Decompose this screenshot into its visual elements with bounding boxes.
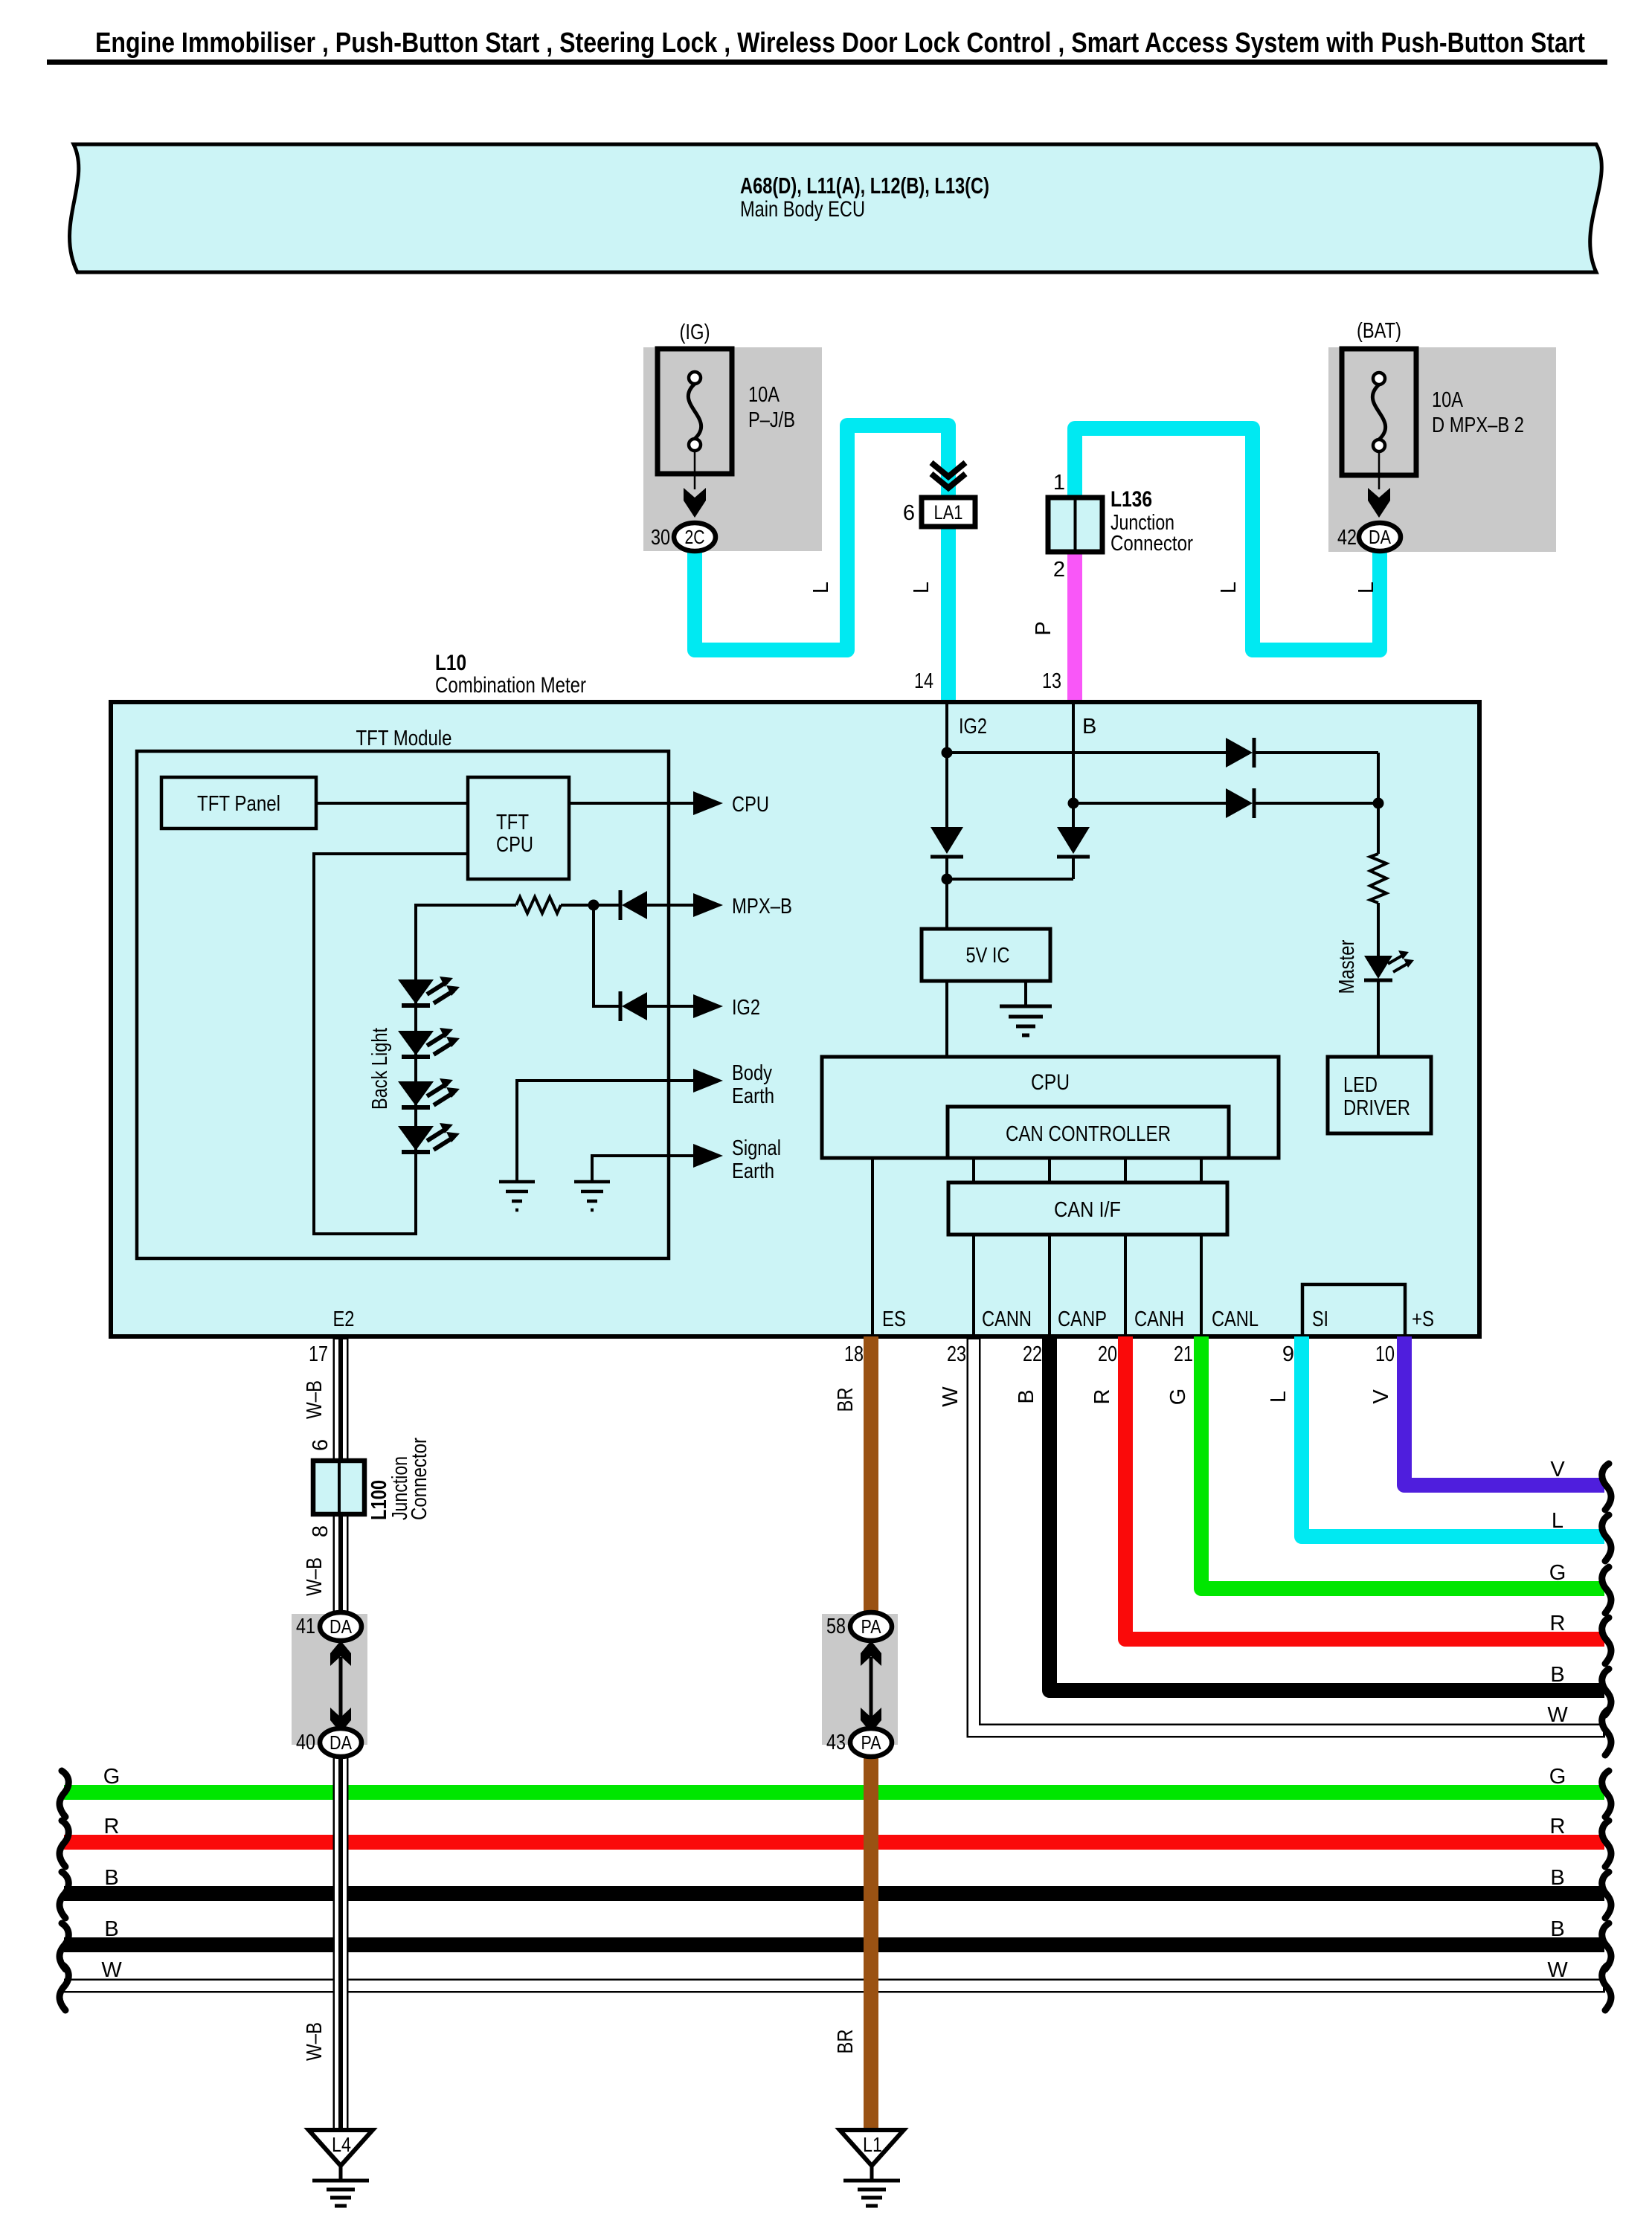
wire IG2 node to diode D3 xyxy=(947,751,1227,754)
svg-text:CPU: CPU xyxy=(496,833,533,857)
continuation curl V xyxy=(1602,1464,1611,1510)
svg-text:Signal: Signal xyxy=(732,1136,781,1160)
svg-text:R: R xyxy=(104,1815,120,1838)
wire B below diode xyxy=(1072,857,1075,879)
oval DA 41 xyxy=(320,1612,361,1641)
LED backlight 4 xyxy=(398,1123,460,1152)
svg-text:SI: SI xyxy=(1312,1307,1328,1331)
ground symbol signal earth xyxy=(574,1182,610,1210)
node IG2 top xyxy=(942,747,953,759)
CAN stub 4 xyxy=(1200,1158,1203,1183)
svg-text:58: 58 xyxy=(826,1615,846,1638)
wire fuse output xyxy=(694,451,696,489)
svg-text:B: B xyxy=(104,1917,118,1941)
svg-text:22: 22 xyxy=(1023,1342,1042,1366)
CAN CONTROLLER box xyxy=(948,1107,1229,1158)
junction connector L100 xyxy=(313,1461,364,1514)
connector pair PA gray block xyxy=(822,1614,898,1745)
svg-text:Combination Meter: Combination Meter xyxy=(435,673,586,698)
arrow up PA xyxy=(861,1641,881,1666)
svg-text:W–B: W–B xyxy=(303,2022,327,2061)
continuation curl B xyxy=(1602,1669,1611,1715)
diode D2 IG2 xyxy=(619,991,623,1021)
svg-text:P–J/B: P–J/B xyxy=(748,408,795,432)
wire R CANH xyxy=(1125,1336,1604,1639)
wire B CANP xyxy=(1050,1336,1604,1690)
arrow MPX-B xyxy=(693,893,723,917)
svg-text:9: 9 xyxy=(1282,1342,1294,1366)
wire L from fuse BAT DA to junction connector L136 xyxy=(1075,428,1380,650)
svg-text:41: 41 xyxy=(296,1615,315,1638)
svg-text:L: L xyxy=(910,582,933,593)
CAN I/F box xyxy=(948,1183,1227,1235)
svg-text:L4: L4 xyxy=(332,2133,351,2156)
svg-text:6: 6 xyxy=(903,501,915,525)
svg-text:G: G xyxy=(1166,1389,1190,1406)
node B top xyxy=(1068,798,1079,809)
svg-text:R: R xyxy=(1090,1389,1114,1405)
svg-text:10A: 10A xyxy=(1432,388,1464,412)
svg-text:L: L xyxy=(809,582,833,593)
curl G left xyxy=(60,1771,68,1817)
terminal arrow down xyxy=(1368,488,1390,518)
fuse element top circle xyxy=(689,372,701,384)
svg-text:LED: LED xyxy=(1343,1073,1378,1097)
ground triangle L1 xyxy=(840,2130,904,2166)
L4 stem xyxy=(339,2166,343,2181)
wire node down to IG2 diode xyxy=(594,905,622,1006)
svg-text:40: 40 xyxy=(296,1731,315,1754)
fuse BAT gray block D MPX-B 2 xyxy=(1328,347,1556,552)
svg-text:DA: DA xyxy=(330,1731,353,1754)
svg-text:BR: BR xyxy=(834,2030,858,2054)
curl B1 right bus xyxy=(1602,1872,1611,1918)
combination meter L10 box xyxy=(111,702,1479,1336)
svg-text:W: W xyxy=(1547,1958,1568,1982)
svg-text:(IG): (IG) xyxy=(680,321,710,344)
wire diode D4 to right rail xyxy=(1254,802,1378,805)
svg-text:Body: Body xyxy=(732,1061,772,1085)
svg-text:DRIVER: DRIVER xyxy=(1343,1096,1410,1120)
LED DRIVER box xyxy=(1328,1057,1431,1133)
svg-text:A68(D), L11(A), L12(B), L13(C): A68(D), L11(A), L12(B), L13(C) xyxy=(740,173,989,199)
LA1 GROUP xyxy=(809,463,975,693)
ground symbol body earth xyxy=(499,1182,535,1210)
oval PA 43 xyxy=(850,1728,892,1757)
svg-text:Earth: Earth xyxy=(732,1159,774,1183)
svg-text:10: 10 xyxy=(1375,1342,1395,1366)
svg-text:13: 13 xyxy=(1042,669,1061,693)
svg-text:Earth: Earth xyxy=(732,1084,774,1108)
LED master xyxy=(1364,956,1392,979)
svg-text:8: 8 xyxy=(309,1525,332,1537)
curl B2 left xyxy=(60,1923,68,1969)
svg-text:TFT Module: TFT Module xyxy=(356,727,452,750)
svg-text:L136: L136 xyxy=(1111,487,1152,512)
connector pair DA gray block xyxy=(292,1614,367,1745)
svg-text:CPU: CPU xyxy=(1031,1070,1070,1095)
curl B2 right bus xyxy=(1602,1923,1611,1969)
wire diode D3 to right rail xyxy=(1254,751,1378,754)
wire CANN internal xyxy=(972,1235,975,1335)
wire CANH internal xyxy=(1124,1235,1127,1335)
terminal arrow down xyxy=(684,488,706,518)
bus wire W outline xyxy=(64,1979,1605,1993)
svg-text:(BAT): (BAT) xyxy=(1357,319,1401,343)
earth symbol L4 xyxy=(312,2181,369,2206)
curl G right bus xyxy=(1602,1771,1611,1817)
svg-text:B: B xyxy=(1550,1663,1564,1687)
svg-text:W: W xyxy=(101,1958,122,1982)
svg-text:43: 43 xyxy=(826,1731,846,1754)
diode D5 down IG2 xyxy=(931,827,963,854)
svg-text:L10: L10 xyxy=(435,651,466,675)
svg-text:PA: PA xyxy=(861,1731,882,1754)
BOTTOM WIRES xyxy=(309,1336,1611,1755)
svg-text:B: B xyxy=(104,1866,118,1890)
curl B1 left xyxy=(60,1872,68,1918)
shaft PA xyxy=(870,1657,873,1719)
title underline xyxy=(47,59,1607,65)
TFT CPU box xyxy=(468,777,569,879)
arrow Signal Earth xyxy=(693,1144,723,1168)
curl R right bus xyxy=(1602,1821,1611,1867)
wire node to diode MPX-B xyxy=(594,904,622,907)
LED backlight 2 xyxy=(398,1028,460,1057)
curl R left xyxy=(60,1821,68,1867)
svg-text:2: 2 xyxy=(1053,558,1065,582)
wire W CANN outline xyxy=(974,1336,1605,1731)
wire diode to IG2 arrow xyxy=(647,1005,695,1008)
svg-text:L: L xyxy=(1217,582,1241,593)
svg-text:B: B xyxy=(1082,715,1096,739)
svg-text:L: L xyxy=(1267,1391,1291,1403)
svg-text:2C: 2C xyxy=(685,526,705,548)
svg-text:+S: +S xyxy=(1412,1307,1434,1331)
svg-text:E2: E2 xyxy=(333,1307,355,1331)
earth symbol L1 xyxy=(843,2181,900,2206)
arrow down DA xyxy=(330,1708,351,1733)
connector oval DA xyxy=(1359,523,1401,551)
svg-text:18: 18 xyxy=(844,1342,864,1366)
wire join diodes xyxy=(947,878,1073,881)
svg-text:D MPX–B 2: D MPX–B 2 xyxy=(1432,414,1524,437)
svg-text:17: 17 xyxy=(309,1342,328,1366)
FUSE IG GROUP xyxy=(643,321,822,551)
L136 divider xyxy=(1074,498,1077,552)
svg-text:B: B xyxy=(1550,1866,1564,1890)
arrow CPU xyxy=(693,791,723,815)
wire L SI xyxy=(1302,1336,1604,1537)
svg-text:BR: BR xyxy=(834,1388,858,1412)
wire fuse output xyxy=(1378,451,1381,489)
wire B node to diode D4 xyxy=(1073,802,1227,805)
wire resistor to node xyxy=(561,904,594,907)
svg-text:14: 14 xyxy=(914,669,933,693)
wire LED to LED DRIVER xyxy=(1377,980,1380,1057)
svg-text:G: G xyxy=(103,1765,120,1789)
bus wire B lower xyxy=(64,1937,1604,1952)
arrow Body Earth xyxy=(693,1069,723,1093)
svg-text:B: B xyxy=(1015,1389,1038,1403)
LED backlight 3 xyxy=(398,1078,460,1107)
wire L from fuse IG 2C to connector LA1 xyxy=(695,425,948,704)
fuse 10A D MPX-B 2 body xyxy=(1342,349,1416,475)
wire signal earth xyxy=(592,1156,695,1182)
svg-text:DA: DA xyxy=(1369,526,1392,548)
wire CANP internal xyxy=(1048,1235,1051,1335)
wire body earth xyxy=(517,1081,695,1182)
svg-text:CANH: CANH xyxy=(1134,1307,1184,1331)
wire IG2 vertical upper xyxy=(945,704,948,827)
fuse element top circle xyxy=(1373,373,1385,385)
wire IG2 below diode xyxy=(945,857,948,929)
wire G CANL xyxy=(1201,1336,1604,1589)
svg-text:1: 1 xyxy=(1053,471,1065,495)
oval PA 58 xyxy=(850,1612,892,1641)
svg-text:L: L xyxy=(1552,1509,1563,1533)
diode D6 down B xyxy=(1057,827,1090,854)
wire resistor to LED xyxy=(1377,903,1380,956)
svg-text:IG2: IG2 xyxy=(732,996,760,1020)
wire right rail top xyxy=(1377,753,1380,854)
connector LA1 box xyxy=(922,498,975,527)
svg-text:G: G xyxy=(1549,1561,1566,1585)
svg-text:42: 42 xyxy=(1337,526,1357,550)
svg-text:W–B: W–B xyxy=(303,1557,327,1596)
svg-text:21: 21 xyxy=(1174,1342,1193,1366)
fuse IG gray block P-J/B xyxy=(643,347,822,551)
TFT Module box xyxy=(137,751,669,1258)
wire TFT Panel to TFT CPU xyxy=(316,802,468,805)
node 5V xyxy=(942,874,953,885)
fuse element bottom circle xyxy=(689,439,701,451)
svg-text:LA1: LA1 xyxy=(934,501,963,524)
BUS WIRES xyxy=(60,1765,1611,2010)
svg-text:L1: L1 xyxy=(863,2133,882,2156)
bus wire B upper xyxy=(64,1886,1604,1901)
svg-text:6: 6 xyxy=(309,1439,332,1451)
svg-text:V: V xyxy=(1369,1389,1393,1404)
diode D1 MPX-B xyxy=(619,890,623,920)
svg-text:Engine Immobiliser , Push-Butt: Engine Immobiliser , Push-Button Start ,… xyxy=(95,28,1585,59)
CONNECTOR GROUPS BOTTOM xyxy=(292,1438,904,2206)
svg-text:P: P xyxy=(1032,621,1055,635)
fuse 10A P-J/B body xyxy=(658,349,732,474)
svg-text:Back Light: Back Light xyxy=(368,1028,392,1110)
svg-text:CAN I/F: CAN I/F xyxy=(1054,1198,1121,1222)
arrow IG2 xyxy=(693,994,723,1018)
curl W left xyxy=(60,1964,68,2010)
diode D4 right-pointing xyxy=(1226,788,1253,818)
arrow up DA xyxy=(330,1641,351,1666)
bus wire G xyxy=(64,1785,1604,1800)
TFT Panel box xyxy=(161,777,316,829)
svg-text:B: B xyxy=(1550,1917,1564,1941)
svg-text:IG2: IG2 xyxy=(959,715,987,739)
wire V +S xyxy=(1404,1336,1604,1485)
svg-text:CPU: CPU xyxy=(732,793,769,817)
arrow down PA xyxy=(861,1708,881,1733)
svg-text:R: R xyxy=(1550,1815,1566,1838)
L1 stem xyxy=(870,2166,874,2181)
svg-text:G: G xyxy=(1549,1765,1566,1789)
resistor master LED xyxy=(1370,854,1386,903)
svg-text:W: W xyxy=(1547,1703,1568,1727)
connector chevron upper xyxy=(931,463,965,477)
svg-text:Connector: Connector xyxy=(408,1438,431,1520)
svg-text:TFT: TFT xyxy=(496,811,529,834)
diode D3 right-pointing xyxy=(1226,738,1253,768)
fuse element S curve xyxy=(1372,385,1385,440)
svg-text:30: 30 xyxy=(651,526,670,550)
resistor backlight xyxy=(516,897,561,913)
svg-text:W: W xyxy=(939,1386,962,1407)
continuation curl L xyxy=(1602,1515,1611,1561)
wire ES from CPU xyxy=(871,1158,874,1335)
node right rail xyxy=(1373,798,1384,809)
CAN stub 2 xyxy=(1048,1158,1051,1183)
svg-text:ES: ES xyxy=(882,1307,906,1331)
fuse element S curve xyxy=(688,384,701,439)
svg-text:CAN CONTROLLER: CAN CONTROLLER xyxy=(1006,1122,1171,1146)
connector chevron lower xyxy=(931,474,965,488)
svg-text:MPX–B: MPX–B xyxy=(732,895,792,918)
continuation curl G xyxy=(1602,1567,1611,1613)
svg-text:R: R xyxy=(1550,1612,1566,1635)
svg-text:CANN: CANN xyxy=(982,1307,1032,1331)
connector oval 2C xyxy=(674,523,716,551)
svg-text:TFT Panel: TFT Panel xyxy=(197,792,280,816)
continuation curl W xyxy=(1602,1709,1611,1755)
svg-text:23: 23 xyxy=(947,1342,966,1366)
wire diode to MPX-B arrow xyxy=(647,904,695,907)
svg-text:10A: 10A xyxy=(748,383,780,407)
svg-text:Master: Master xyxy=(1335,939,1359,994)
svg-text:W–B: W–B xyxy=(303,1380,327,1419)
LED backlight 1 xyxy=(398,977,460,1006)
svg-text:20: 20 xyxy=(1098,1342,1117,1366)
oval DA 40 xyxy=(320,1728,361,1757)
SI box xyxy=(1302,1284,1405,1336)
svg-text:DA: DA xyxy=(330,1615,353,1638)
svg-text:CANL: CANL xyxy=(1212,1307,1259,1331)
L136 GROUP xyxy=(1032,471,1378,693)
wire P from L136 pin 2 to meter pin 13 xyxy=(1067,549,1082,704)
CPU box xyxy=(822,1057,1279,1158)
fuse element bottom circle xyxy=(1373,440,1385,451)
shaft DA xyxy=(339,1657,343,1719)
wire W-B E2 to ground L4 xyxy=(333,1336,349,2130)
wire 5V IC ground stub xyxy=(1024,981,1027,1006)
FUSE BAT GROUP xyxy=(1328,319,1556,552)
curl W right bus xyxy=(1602,1964,1611,2010)
svg-text:Main Body ECU: Main Body ECU xyxy=(740,197,865,222)
wire TFT CPU to CPU arrow xyxy=(569,802,695,805)
junction connector L136 box xyxy=(1048,498,1102,552)
ground symbol 5V IC xyxy=(1000,1006,1052,1035)
CAN stub 3 xyxy=(1124,1158,1127,1183)
wire BR ES to ground L1 xyxy=(864,1336,878,2130)
ground triangle L4 xyxy=(309,2130,373,2166)
svg-text:CANP: CANP xyxy=(1058,1307,1107,1331)
wire TFT CPU to backlight loop xyxy=(314,854,516,1234)
VERTICAL GROUND WIRES xyxy=(303,1336,871,2130)
svg-text:PA: PA xyxy=(861,1615,882,1638)
wire B vertical upper xyxy=(1072,704,1075,827)
continuation curl R xyxy=(1602,1618,1611,1664)
CAN stub 1 xyxy=(972,1158,975,1183)
bus wire R xyxy=(64,1835,1604,1850)
wire 5V IC to CPU xyxy=(945,981,948,1057)
node backlight junction xyxy=(588,900,600,911)
ECU band A68 Main Body ECU xyxy=(70,144,1602,272)
svg-text:V: V xyxy=(1550,1458,1565,1481)
wire CANL internal xyxy=(1200,1235,1203,1335)
svg-text:5V IC: 5V IC xyxy=(966,944,1010,968)
svg-text:Connector: Connector xyxy=(1111,532,1193,556)
svg-text:L: L xyxy=(1354,582,1378,593)
5V IC box xyxy=(922,929,1050,981)
